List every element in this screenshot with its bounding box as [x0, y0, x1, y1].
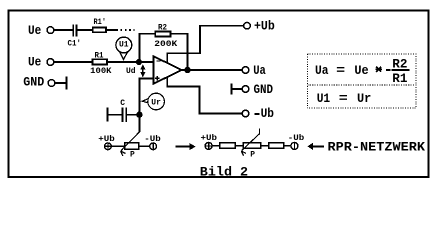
svg-text:Ue: Ue — [28, 23, 41, 38]
resistor R1 — [92, 59, 107, 64]
svg-text:-Ub: -Ub — [288, 133, 305, 143]
svg-text:100K: 100K — [90, 66, 112, 76]
svg-text:C: C — [120, 98, 125, 108]
border frame — [9, 11, 429, 178]
svg-text:R1': R1' — [94, 17, 107, 27]
svg-text:+Ub: +Ub — [254, 18, 275, 33]
svg-text:Ud: Ud — [126, 66, 136, 76]
terminal Ue lower — [47, 59, 54, 66]
arrow Ud (double-headed) — [140, 64, 145, 77]
svg-text:Ue: Ue — [28, 55, 41, 70]
wire junction to pot wiper — [139, 115, 141, 132]
wire Ue top to C1' — [54, 29, 72, 31]
svg-text:GND: GND — [23, 74, 44, 89]
wire gnd bar to terminal — [233, 88, 243, 90]
svg-text:R2: R2 — [158, 22, 167, 32]
wire output riser — [187, 33, 189, 70]
resistor R1' — [93, 27, 106, 32]
terminal +Ub — [244, 22, 251, 29]
wall anchor bar for C — [107, 108, 109, 122]
junction inverting node — [136, 59, 142, 65]
wire to R right net — [212, 145, 220, 147]
resistor right net second — [269, 143, 284, 148]
resistor right net first — [220, 143, 235, 148]
svg-text:R1: R1 — [95, 50, 104, 60]
svg-text:U1: U1 — [317, 91, 331, 106]
wire output to Ua — [181, 69, 243, 71]
terminal GND left — [48, 80, 55, 87]
terminal circle-bar right net — [291, 142, 298, 149]
svg-text:GND: GND — [254, 82, 274, 97]
capacitor C — [122, 108, 126, 123]
svg-text:Ur: Ur — [151, 97, 161, 107]
arrow left-pointing — [308, 143, 325, 151]
potentiometer P right — [241, 128, 260, 155]
capacitor C1' — [73, 24, 76, 36]
wire R2 to output riser — [171, 33, 188, 35]
svg-text:P: P — [130, 150, 135, 160]
wire +supply tap — [167, 26, 244, 64]
wire R to pot right net — [235, 145, 243, 147]
ground bar left — [65, 77, 67, 90]
wire to pot P left — [111, 145, 124, 147]
terminal circle-bar left pot — [150, 143, 157, 150]
op-amp U1 — [154, 56, 182, 84]
terminal GND right — [242, 86, 249, 93]
svg-text:Ua: Ua — [253, 63, 266, 78]
junction output node — [184, 67, 191, 74]
svg-text:+Ub: +Ub — [201, 133, 218, 143]
svg-text:Ue: Ue — [354, 63, 368, 78]
svg-text:R1: R1 — [392, 71, 407, 86]
wire pot to R2 right net — [261, 145, 269, 147]
svg-text:U1: U1 — [119, 39, 129, 49]
wire R2 right net to minus terminal — [284, 145, 291, 147]
formula box 2 — [307, 85, 416, 108]
svg-text:200K: 200K — [154, 39, 178, 49]
wire C1' to R1' — [77, 29, 92, 31]
arrow right-pointing — [175, 143, 195, 150]
wire R1 to inverting input — [107, 61, 153, 63]
svg-text:C1': C1' — [68, 38, 82, 48]
wire pot P left to minus terminal — [139, 145, 150, 147]
terminal Ue top — [47, 27, 54, 34]
ground bar right — [231, 84, 233, 95]
wire riser to R2 — [139, 33, 156, 35]
formula Ua = Ue * -R2/R1 — [315, 57, 409, 86]
svg-text:=: = — [336, 63, 345, 78]
label -Ub — [254, 113, 259, 115]
svg-text:RPR-NETZWERK: RPR-NETZWERK — [328, 139, 426, 154]
resistor R2 — [155, 32, 170, 37]
terminal circle-plus left pot — [105, 143, 112, 150]
junction C node — [136, 112, 142, 118]
wire Ue lower to R1 — [54, 61, 93, 63]
dashed stub wire after R1' — [107, 29, 116, 31]
formula box 1 — [307, 54, 416, 85]
wire -supply tap — [167, 77, 242, 114]
wire anchor to C — [109, 114, 122, 116]
wire noninverting input — [140, 78, 154, 114]
svg-text:Ua: Ua — [315, 63, 329, 78]
potentiometer P left — [121, 131, 140, 156]
formula U1 = Ur — [317, 91, 372, 106]
balloon U1 — [116, 37, 132, 59]
wire GND left — [55, 82, 66, 84]
balloon Ur — [142, 93, 164, 110]
terminal circle-plus right net — [205, 142, 212, 149]
svg-text:-Ub: -Ub — [144, 134, 161, 144]
svg-text:Ur: Ur — [357, 91, 371, 106]
terminal Ua — [242, 67, 249, 74]
svg-text:Ub: Ub — [261, 106, 275, 121]
svg-text:P: P — [250, 150, 255, 160]
svg-text:=: = — [339, 91, 348, 106]
wire C to junction — [127, 114, 139, 116]
terminal -Ub — [242, 110, 249, 117]
wire feedback riser — [139, 34, 141, 62]
svg-text:Bild 2: Bild 2 — [200, 164, 249, 179]
